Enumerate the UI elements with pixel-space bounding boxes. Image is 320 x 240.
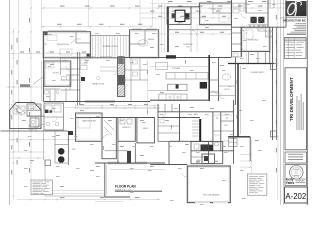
- dimension text specks left: [10, 45, 13, 50]
- dimension line: [240, 160, 252, 162]
- dimension text specks bottom: [60, 196, 65, 199]
- thick wall segment x127: [127, 151, 131, 163]
- dim vertical x164.4: [163, 4, 165, 53]
- great room bottom wall: [44, 101, 151, 103]
- wall y29.8 long: [168, 29, 232, 31]
- dining inner wall line: [131, 31, 158, 56]
- door leaf diagonal left wall: [33, 77, 43, 84]
- guest suite bed: [219, 13, 229, 22]
- appliance X strokes: [251, 17, 265, 23]
- project tall box: [285, 68, 307, 150]
- top-right block walls: [231, 0, 233, 27]
- wall y90.7: [148, 90, 187, 92]
- closet hall walls: [102, 118, 116, 159]
- guest bath wall x213: [212, 3, 214, 13]
- patio left wall: [237, 64, 239, 138]
- sauna inner square: [175, 10, 185, 21]
- wall y150.8 left part: [105, 150, 127, 152]
- svg-text:LAUNDRY: LAUNDRY: [122, 126, 131, 129]
- tub: [13, 106, 25, 114]
- right exterior wall: [272, 27, 274, 140]
- wall x104.8 down: [104, 163, 106, 197]
- svg-text:ARCHITECTURE INC: ARCHITECTURE INC: [283, 19, 306, 22]
- garage inner wall line: [189, 167, 229, 201]
- patio left wall inner line: [240, 66, 242, 134]
- hall cross wall y90: [61, 89, 80, 91]
- title strip border x283.3: [282, 0, 284, 205]
- kitchen bottom wall: [150, 99, 210, 101]
- right dim vertical x277.9: [277, 0, 279, 200]
- garage walls: [187, 166, 230, 203]
- thick wall column x168: [167, 7, 169, 52]
- svg-text:STUDY: STUDY: [53, 73, 60, 75]
- media room window double line: [48, 30, 86, 32]
- dim vertical x251.5: [251, 140, 253, 174]
- hall light wall x66: [65, 88, 67, 102]
- info small box: [285, 152, 307, 163]
- media room inner wall line: [45, 33, 90, 57]
- counter with circles: [248, 24, 268, 26]
- bottom wall y163 window double line: [108, 163, 147, 165]
- study walls: [44, 61, 71, 86]
- bath room box: [202, 154, 214, 164]
- butler pantry left of kitchen: [130, 58, 132, 102]
- hall cross wall y75: [66, 74, 80, 76]
- seal box: [285, 165, 307, 186]
- arcs in exercise area: [191, 30, 197, 36]
- revision table box: [285, 38, 306, 59]
- bath cross wall y116.5: [27, 116, 44, 118]
- wall between exercise and guest: [191, 6, 200, 8]
- wall y197: [105, 196, 130, 198]
- wall x235 vertical: [234, 58, 236, 106]
- dim row y34: [155, 33, 230, 35]
- left dim line x41: [41, 0, 43, 31]
- svg-text:COVERED PORCH: COVERED PORCH: [102, 46, 119, 48]
- dim line y139.7: [9, 139, 80, 141]
- covered porch deck stripes: [92, 36, 94, 58]
- svg-text:KITCHEN: KITCHEN: [172, 68, 181, 70]
- master bedroom walls: [76, 113, 103, 141]
- guest bath wall y13: [213, 12, 232, 14]
- window X box 2: [266, 31, 273, 37]
- media room interior: [75, 32, 77, 43]
- wc bottom: [55, 162, 68, 164]
- window ticks on y163: [108, 161, 120, 163]
- svg-text:BEDROOM 2: BEDROOM 2: [248, 40, 259, 42]
- right band y30-63 busier: [232, 56, 242, 58]
- svg-text:FLOOR PLAN: FLOOR PLAN: [115, 184, 136, 188]
- left exterior wall: [43, 32, 45, 102]
- svg-text:BATH: BATH: [178, 22, 183, 25]
- master bath bay walls: [10, 103, 41, 129]
- top dim line y3.5: [150, 3, 286, 5]
- left notes box: [31, 180, 53, 195]
- title underline: [115, 190, 162, 192]
- laundry fixtures: [120, 119, 125, 124]
- kitchen right thick wall: [208, 55, 210, 101]
- bedroom2 inner wall line: [243, 29, 269, 51]
- ceiling fan mark: [96, 76, 99, 79]
- final annotation speck scatter: [48, 33, 52, 36]
- bay diagonal mullions: [11, 104, 22, 116]
- light line y169.6: [110, 169, 165, 171]
- bath dark fixture: [201, 144, 210, 150]
- revision col line 1: [288, 38, 290, 59]
- powder rooms under study: [44, 88, 61, 90]
- dim vertical x197: [196, 24, 198, 52]
- svg-text:MEDIA ROOM: MEDIA ROOM: [57, 43, 69, 46]
- svg-text:TWO CAR GARAGE: TWO CAR GARAGE: [203, 193, 220, 196]
- inner border x280.5: [280, 0, 282, 205]
- kitchen upper counter band: [166, 73, 208, 80]
- top-right bath fixtures: [233, 3, 239, 7]
- hall to patio: [210, 95, 235, 97]
- fireplace hatched mass: [118, 57, 125, 97]
- fridge cabinets left: [156, 62, 168, 69]
- study desk: [46, 63, 54, 68]
- dimension line: [240, 166, 252, 168]
- logo script glyph loop: [286, 2, 297, 16]
- top dim line y13: [140, 12, 232, 14]
- wall row y117.5: [76, 117, 155, 119]
- vanity fixtures: [46, 122, 50, 126]
- dimension text specks right: [275, 15, 278, 20]
- wall y164.5: [150, 164, 187, 166]
- master inner wall line: [77, 114, 101, 140]
- media room corner dark marks: [44, 32, 48, 35]
- bath dark fixture 2: [204, 156, 208, 161]
- central cluster walls: [158, 111, 234, 113]
- great room top wall: [60, 57, 117, 59]
- porch bottom edge: [91, 57, 130, 59]
- firm name tiny line: [287, 16, 307, 19]
- dimension text specks top: [57, 23, 62, 26]
- bottom dim line y199.5: [17, 199, 160, 201]
- bottom middle wall y163: [95, 162, 165, 164]
- hall fixtures right of wall: [81, 60, 88, 64]
- top dim line y26.7: [41, 26, 152, 28]
- dim vertical x147.5: [147, 60, 149, 115]
- interior vertical specks: [146, 70, 149, 74]
- dim row y107.5: [63, 107, 160, 109]
- study inner wall line: [45, 62, 69, 85]
- porch slab lines bottom: [47, 193, 105, 195]
- revision col line 2: [293, 38, 295, 59]
- bath cluster walls: [27, 104, 41, 116]
- stair dark wall: [199, 119, 201, 141]
- dining window ticks: [132, 28, 142, 30]
- hall dark door blob: [81, 77, 85, 81]
- left dim line x31: [30, 0, 32, 180]
- interior text specks: [50, 63, 54, 66]
- right exterior wall outer line: [275, 27, 277, 140]
- dining table oval: [138, 40, 148, 46]
- closet hatch door: [104, 120, 114, 130]
- grid vertical x88: [88, 0, 90, 27]
- sheet left border: [8, 0, 10, 205]
- wall x241 down: [240, 27, 242, 57]
- hall small walls: [232, 32, 242, 34]
- dim row y53.5: [10, 53, 90, 55]
- left wall outer line: [41, 61, 43, 101]
- stair treads: [192, 120, 199, 122]
- bedroom2 walls: [241, 27, 270, 51]
- master bed: [78, 118, 90, 128]
- powder fixtures: [215, 142, 219, 146]
- bottom dim line y201.5: [95, 201, 123, 203]
- vertical address lines in tall box: [296, 96, 299, 130]
- wall x231.5 continuation: [231, 27, 233, 57]
- svg-text:GREAT ROOM: GREAT ROOM: [92, 83, 105, 86]
- bedroom2 bed: [244, 30, 253, 39]
- guest suite bottom wall: [200, 24, 232, 26]
- patio corner wall down: [249, 137, 251, 161]
- svg-text:GUEST SUITE: GUEST SUITE: [210, 8, 223, 10]
- svg-text:HALL: HALL: [194, 113, 199, 116]
- fixture right of sauna: [185, 13, 190, 19]
- laundry walls: [118, 118, 135, 142]
- wall right of circles: [67, 131, 69, 165]
- window X box 1: [258, 25, 266, 31]
- dim row y152 left: [9, 151, 45, 153]
- garage door breaks: [195, 202, 210, 204]
- dim row y18: [140, 17, 232, 19]
- fireplace surround lines: [100, 66, 118, 68]
- svg-text:A-202: A-202: [285, 192, 306, 201]
- grid vertical x140: [139, 0, 141, 27]
- svg-text:TRI DEVELOPMENT: TRI DEVELOPMENT: [289, 77, 294, 121]
- hall small rooms infill: [61, 79, 80, 81]
- wall x269.8 down: [269, 27, 271, 63]
- wc shelf: [55, 144, 68, 146]
- svg-text:COVERED PATIO: COVERED PATIO: [250, 71, 265, 74]
- inner line x106.5: [106, 165, 108, 195]
- great room south window double line: [85, 100, 115, 102]
- dim vertical x246.5: [246, 27, 248, 63]
- grid vertical x152: [152, 0, 154, 27]
- patio bottom wall: [228, 136, 250, 138]
- guest suite walls: [200, 3, 232, 25]
- kitchen top wall: [125, 57, 231, 59]
- svg-text:MASTER BDRM: MASTER BDRM: [82, 120, 96, 123]
- svg-text:NOOK: NOOK: [225, 89, 231, 91]
- wall x218: [218, 58, 220, 102]
- patio top wall: [228, 63, 274, 65]
- guest suite inner wall line: [201, 4, 230, 23]
- dining room walls: [130, 30, 159, 58]
- media room furniture: [47, 35, 57, 41]
- wall y51.4: [232, 50, 270, 52]
- left dim line x13: [12, 28, 14, 200]
- address lines: [296, 22, 307, 25]
- right notes box: [247, 174, 267, 195]
- band wall x258: [257, 51, 259, 63]
- bath door dark marks: [45, 110, 48, 113]
- logo script glyph hook: [295, 1, 301, 5]
- cabinet front line: [150, 66, 209, 68]
- appliance dark square 2: [258, 17, 264, 23]
- left note text blob: [20, 84, 30, 87]
- appliance dark square 1: [251, 17, 257, 23]
- fireplace middle dark: [118, 75, 124, 85]
- room right of laundry: [137, 118, 155, 143]
- left dim y87: [6, 86, 43, 88]
- mudroom walls: [191, 142, 223, 164]
- top dim line y8: [42, 7, 286, 9]
- wc wall: [54, 131, 56, 163]
- logo script glyph stem: [295, 2, 296, 16]
- exercise suite outer wall: [167, 7, 191, 25]
- porch edge lines: [43, 131, 45, 160]
- hall light wall x60.5: [60, 58, 62, 75]
- bath wall x36: [35, 117, 37, 132]
- kitchen island: [168, 84, 187, 91]
- guest closet line: [200, 16, 206, 18]
- leader lines: [70, 39, 81, 44]
- porch top edge: [91, 35, 130, 37]
- right wall window breaks: [272, 69, 278, 71]
- extra door arcs: [102, 134, 109, 141]
- band wall x265.5: [265, 51, 267, 63]
- dark door blob x68: [68, 131, 73, 135]
- kitchen lower counter band: [159, 94, 187, 101]
- pantry rooms left of cluster: [158, 118, 180, 142]
- svg-text:HIS: HIS: [225, 125, 229, 127]
- hall cross wall y69: [61, 68, 80, 70]
- left dim line x18: [18, 0, 20, 152]
- closet hanging rods right: [214, 114, 220, 116]
- dim row y158 left: [9, 157, 45, 159]
- svg-text:HERS: HERS: [143, 128, 149, 130]
- garage approach wall: [168, 142, 170, 166]
- sheet number box: [285, 187, 308, 203]
- fixture left of sauna: [172, 13, 175, 18]
- patio column squares: [271, 64, 277, 70]
- wall x117.9 down: [117, 141, 119, 163]
- wc dark circles: [58, 148, 65, 155]
- wall x135.3 down: [134, 143, 136, 163]
- seal circle: [290, 166, 304, 180]
- sheet right border: [306, 0, 308, 205]
- island dark speck: [176, 85, 179, 89]
- dimension line: [240, 153, 252, 155]
- svg-text:Yates: Yates: [286, 181, 295, 185]
- hallway double wall x77.5/x79.8: [77, 52, 79, 105]
- mid dim row y105.5: [75, 105, 160, 107]
- svg-text:RM: RM: [187, 46, 190, 48]
- great room window ticks top: [84, 56, 95, 58]
- porch columns: [45, 160, 51, 166]
- seal inner text specks: [294, 168, 299, 171]
- mudroom dark fixture: [209, 145, 214, 151]
- svg-text:WIC: WIC: [72, 149, 76, 151]
- fireplace upper piece: [118, 56, 123, 64]
- top-right closet lines: [269, 0, 271, 8]
- mid dim row y108.2: [75, 107, 160, 109]
- range dark blob: [200, 82, 207, 89]
- media room outer walls: [43, 32, 90, 58]
- band wall x248.5: [248, 51, 250, 63]
- exercise room right wall: [190, 24, 192, 52]
- svg-text:DINING: DINING: [148, 39, 155, 41]
- kitchen dark wall segment: [166, 55, 176, 58]
- outdoor kitchen fixtures: [229, 139, 238, 147]
- dim vertical x161.8: [161, 4, 163, 53]
